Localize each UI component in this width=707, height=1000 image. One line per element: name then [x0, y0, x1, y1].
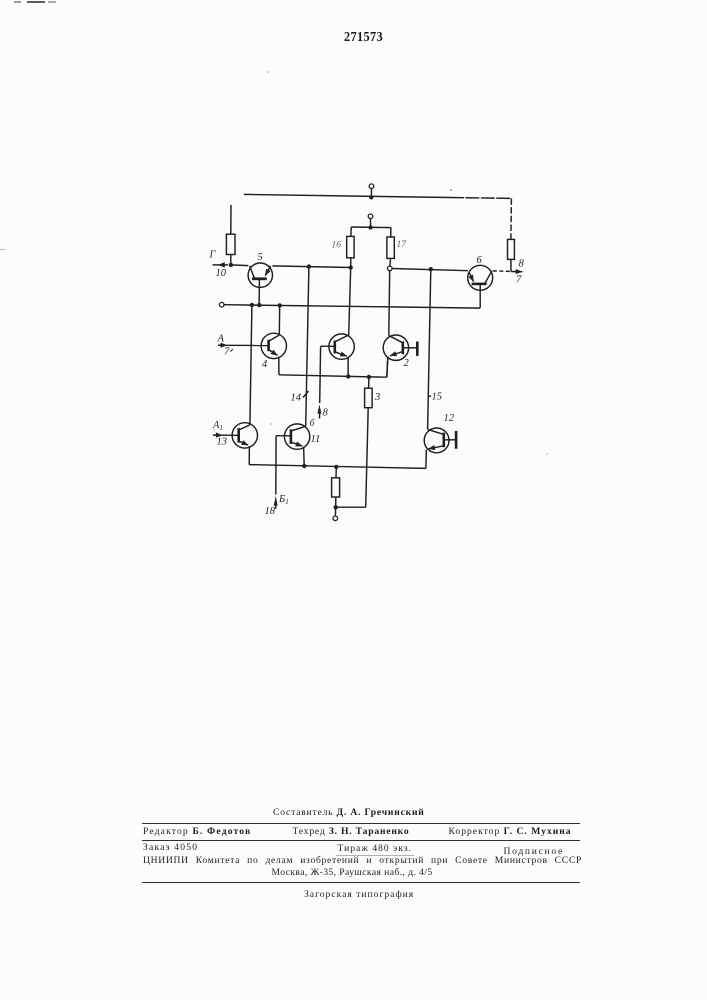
terminal arrow A1/13 input: [213, 434, 218, 436]
svg-text:11: 11: [311, 434, 321, 445]
svg-text:4: 4: [262, 359, 268, 370]
node wire mid: [307, 264, 311, 268]
wire bottom link to R3 lead: [336, 506, 366, 508]
wire node to transistor 5: [231, 264, 248, 267]
wire T bar: [351, 226, 391, 229]
wire Q6 emitter to out (dashed scan): [493, 270, 511, 273]
wire Q1 collector up to R16 node: [349, 268, 351, 335]
svg-text:14: 14: [291, 393, 302, 404]
resistor 17: [387, 237, 394, 258]
transistor Q12: [424, 428, 449, 453]
wire A to Q4 base: [227, 344, 269, 346]
resistor 16: [347, 236, 354, 257]
transistor Q4: [261, 333, 286, 358]
wire left stub: [230, 205, 232, 234]
wire resistor right bottom: [510, 259, 512, 271]
paper specks: [267, 71, 269, 73]
resistor R3: [368, 377, 370, 388]
svg-text:7: 7: [516, 275, 522, 286]
svg-text:8: 8: [519, 259, 525, 270]
wire Q4 collector up: [278, 305, 280, 335]
wire R3 bottom long: [366, 408, 369, 508]
wire Q11 emitter down: [303, 447, 306, 466]
wire Q4 emitter down: [278, 357, 280, 375]
transistor Q5: [248, 263, 272, 287]
node a: [250, 303, 254, 307]
node at terminal 10: [229, 263, 233, 267]
wire R16 bottom: [350, 258, 352, 268]
wire Q12 emitter down: [425, 450, 427, 469]
svg-text:16: 16: [332, 241, 342, 251]
node bottom: [334, 505, 338, 509]
svg-text:17: 17: [397, 240, 408, 250]
terminal mid supply: [368, 214, 373, 219]
node mid T: [368, 225, 372, 229]
wire Q2 base stub: [403, 347, 417, 349]
wire arrow to Q13 base: [223, 434, 239, 436]
terminal arrow out 8/7: [511, 271, 522, 273]
wire Q2 emitter down: [387, 357, 388, 378]
svg-text:13: 13: [217, 437, 228, 448]
wire 14 riser: [306, 267, 309, 427]
transistor Q13: [232, 423, 257, 448]
wire 18 vertical with base of Q11: [276, 435, 291, 437]
terminal top supply: [369, 184, 374, 189]
node rail rbot: [334, 465, 338, 469]
wire base of Q5 down: [258, 279, 260, 305]
node open under R17: [388, 266, 393, 271]
wire bottom rail: [249, 465, 426, 469]
svg-text:б: б: [310, 418, 316, 429]
wire Q2 collector up to node17: [388, 271, 391, 336]
wire Q6 base down: [479, 285, 481, 308]
svg-text:6: 6: [477, 255, 483, 266]
svg-text:2: 2: [404, 358, 410, 369]
transistor Q11: [284, 424, 309, 449]
wire Q1 emitter down: [347, 357, 349, 376]
terminal arrow A/7 input: [218, 344, 223, 346]
wire second rail: [224, 305, 480, 308]
wire Q13 emitter down: [248, 446, 250, 465]
svg-text:5: 5: [258, 252, 263, 263]
node r3 top: [367, 375, 371, 379]
wire emitter row: [279, 375, 387, 377]
resistor bottom: [335, 467, 337, 478]
svg-text:12: 12: [444, 413, 455, 424]
svg-text:Г: Г: [209, 250, 217, 261]
patent number heading 271573: [344, 30, 383, 46]
top supply rail wire: [244, 194, 450, 197]
wire Q12 base stub: [444, 439, 456, 441]
svg-text:15: 15: [432, 392, 443, 403]
resistor left top: [226, 234, 235, 254]
transistor Q1 middle: [329, 334, 354, 359]
footer printing block: [273, 807, 425, 818]
wire Q1 base drop with up arrow 8: [319, 346, 322, 403]
wire corner up to Q2 emitter: [387, 357, 388, 377]
wire node17 to Q6 base-net: [392, 269, 468, 271]
scanner edge artifact top-left: [14, 1, 21, 3]
wire Q5 collector to node under R16: [272, 266, 350, 268]
terminal bottom: [334, 508, 336, 516]
wire 15 riser: [428, 269, 431, 429]
wire rail right drop: [510, 198, 513, 239]
wire R17 bottom: [389, 258, 392, 266]
transistor Q2: [383, 335, 408, 360]
svg-text:10: 10: [216, 268, 227, 279]
svg-text:Б1: Б1: [278, 494, 289, 506]
node under R16: [349, 265, 353, 269]
svg-text:8: 8: [323, 408, 329, 419]
transistor Q6: [468, 265, 493, 290]
node c: [278, 303, 282, 307]
node r3 left: [346, 374, 350, 378]
node wire15 top: [429, 267, 433, 271]
wire resistor to node: [230, 255, 232, 265]
terminal second rail: [219, 302, 224, 307]
svg-text:3: 3: [374, 392, 380, 403]
node b: [257, 303, 261, 307]
svg-text:7: 7: [224, 347, 230, 358]
terminal arrow 10 (input Г): [218, 264, 228, 266]
resistor right top: [508, 239, 515, 259]
node top rail junction: [369, 195, 373, 199]
svg-text:18: 18: [265, 506, 276, 517]
svg-text:A: A: [217, 334, 225, 345]
wire Q13 collector riser: [250, 305, 252, 425]
node rail q11: [302, 464, 306, 468]
